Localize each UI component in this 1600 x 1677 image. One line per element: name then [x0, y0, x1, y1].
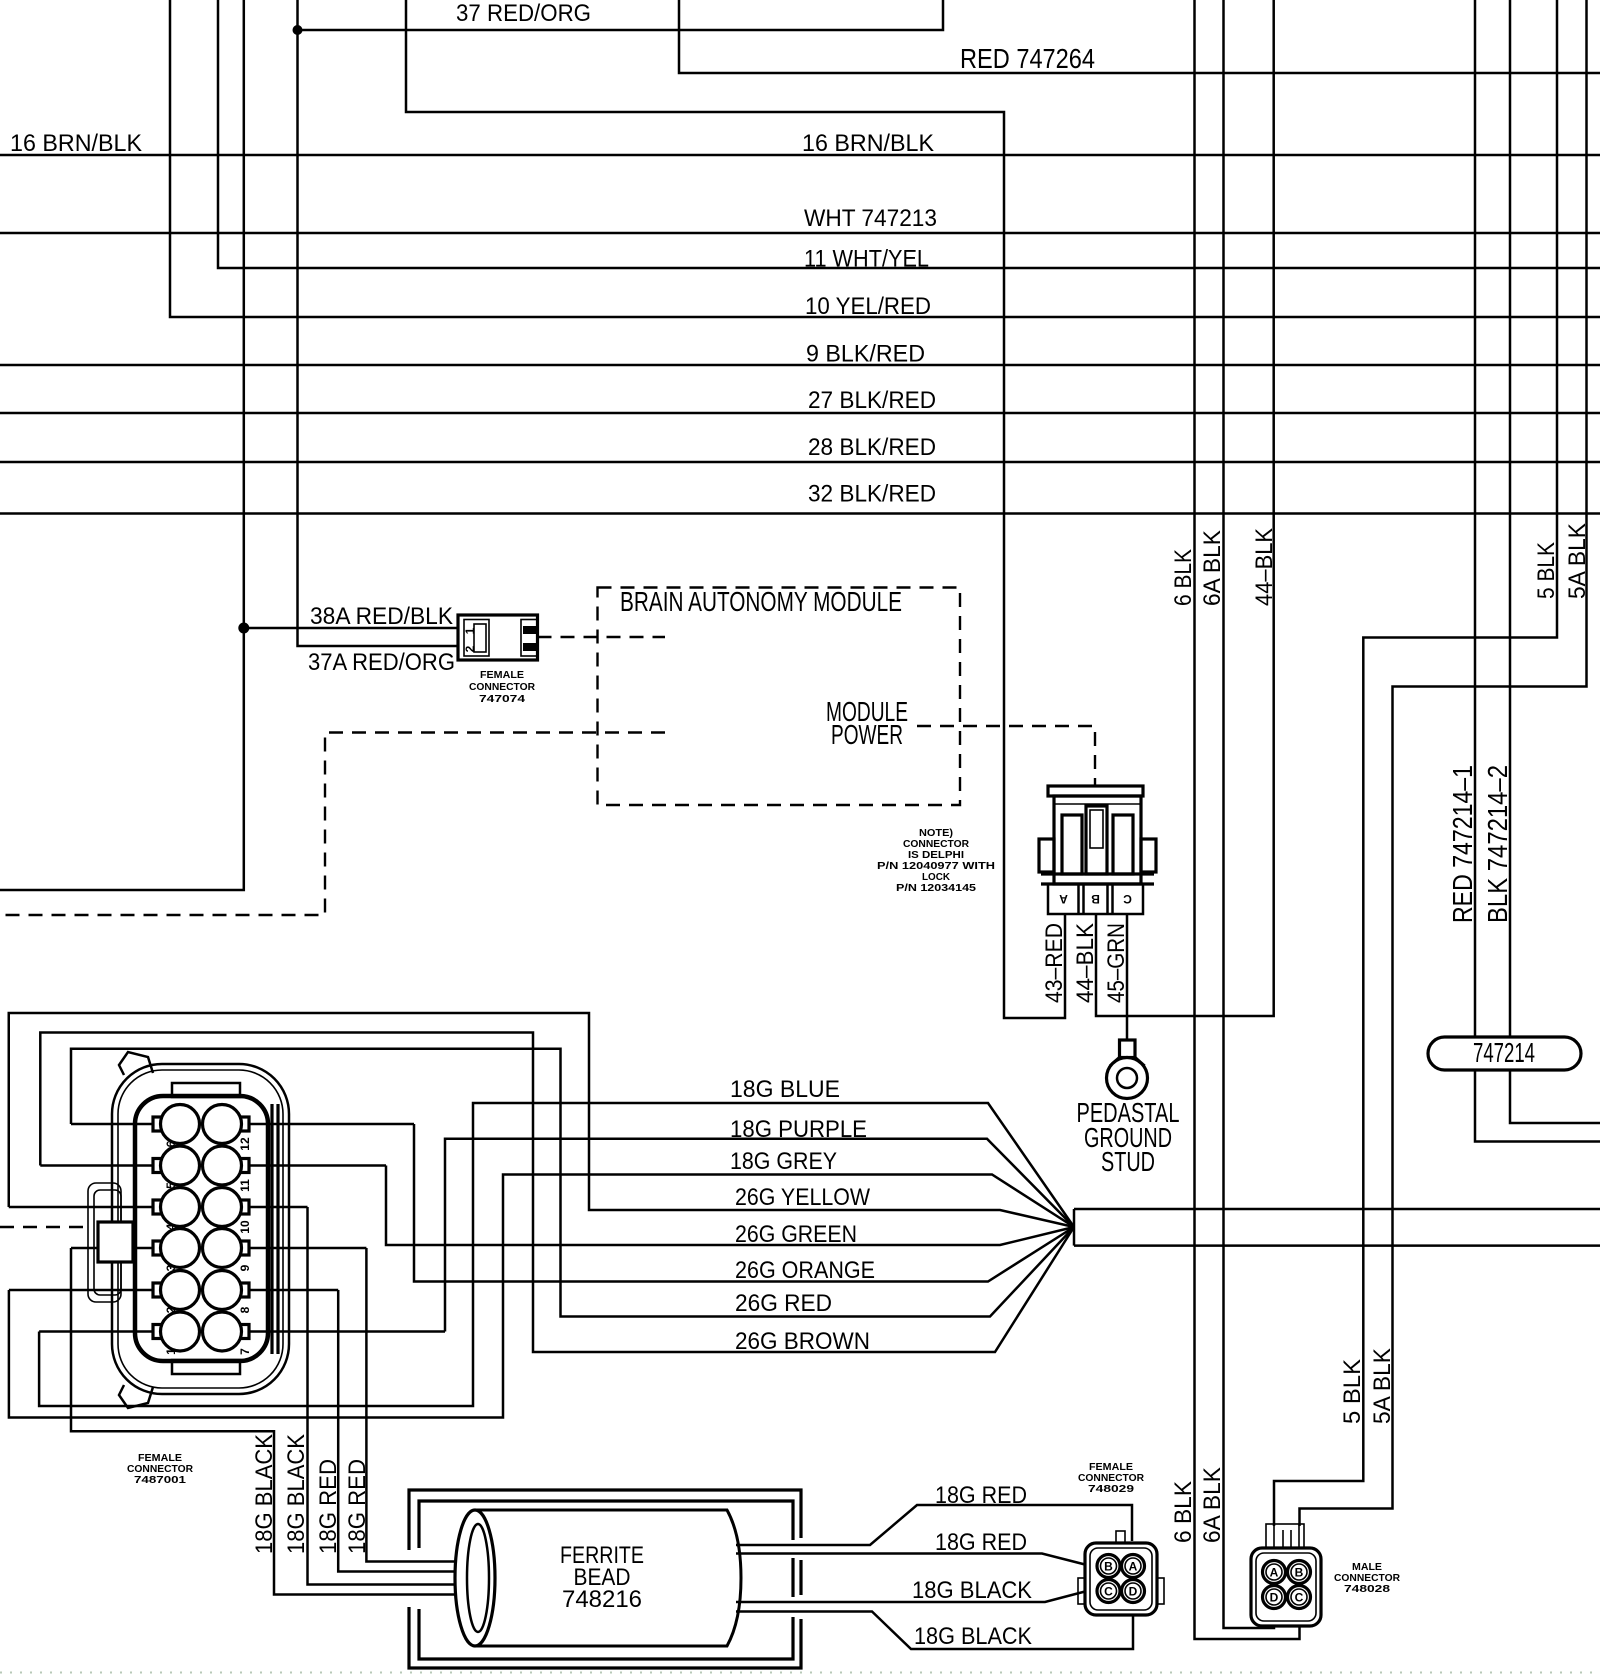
label MALE CONNECTOR 748028	[1334, 1561, 1400, 1595]
svg-text:18G RED: 18G RED	[935, 1529, 1027, 1556]
label FERRITE BEAD 748216	[560, 1542, 644, 1613]
label 26G BROWN	[735, 1328, 870, 1355]
svg-text:43–RED: 43–RED	[1041, 923, 1068, 1003]
wire row2 pins 5-11	[40, 1164, 386, 1167]
svg-text:26G RED: 26G RED	[735, 1290, 832, 1317]
svg-text:C: C	[1295, 1591, 1304, 1605]
label 43-RED rotated	[1041, 923, 1068, 1003]
svg-text:6: 6	[164, 1140, 178, 1147]
wire 38A RED/BLK with branch down to y=890	[0, 0, 458, 890]
svg-text:2: 2	[463, 645, 477, 652]
wire bead out 4 to 748029 pin D	[736, 1612, 1133, 1650]
svg-text:B: B	[1104, 1560, 1113, 1574]
label FEMALE CONNECTOR 748029	[1078, 1461, 1144, 1495]
label 11 WHT/YEL	[804, 246, 929, 273]
svg-text:5A BLK: 5A BLK	[1369, 1347, 1396, 1424]
svg-text:11: 11	[238, 1179, 252, 1192]
label 18G BLUE	[730, 1076, 840, 1103]
svg-text:9 BLK/RED: 9 BLK/RED	[806, 341, 925, 368]
svg-text:5 BLK: 5 BLK	[1533, 541, 1560, 599]
label 6 BLK bottom	[1170, 1480, 1197, 1543]
svg-text:18G BLACK: 18G BLACK	[914, 1623, 1033, 1650]
label 10 YEL/RED	[805, 293, 931, 320]
ferrite bead cylinder	[455, 1510, 741, 1646]
svg-text:D: D	[1129, 1585, 1138, 1599]
wire 26G GREEN route (row3 left)	[386, 1166, 1074, 1246]
label 18G BLACK out3	[912, 1577, 1033, 1604]
pin D 748028	[1263, 1586, 1286, 1609]
svg-text:18G BLUE: 18G BLUE	[730, 1076, 840, 1103]
label 18G RED rotated 1	[315, 1459, 342, 1554]
pin A delphi	[1059, 892, 1068, 906]
wire 26G YELLOW route (row2 right)	[9, 1013, 1074, 1227]
wire row6 pins 1-7	[39, 1330, 445, 1333]
label 5A BLK top	[1564, 522, 1591, 599]
svg-text:BLK 747214–2: BLK 747214–2	[1482, 765, 1513, 923]
label MODULE POWER	[826, 696, 908, 750]
label BLK 747214-2 rotated	[1482, 765, 1513, 923]
wire 6A BLK vertical to male connector pin D	[1224, 0, 1275, 1628]
pin numbers right 12 11 10 9 8 7	[238, 1137, 252, 1355]
svg-text:3: 3	[164, 1264, 178, 1271]
label 44-BLK rotated top	[1251, 527, 1278, 606]
wire dashed module power to delphi connector	[917, 726, 1095, 786]
wire 45-GRN to ground stud	[1126, 914, 1129, 1040]
wire bead feed 2 (row5 right) 18G RED	[338, 1290, 488, 1572]
label 26G GREEN	[735, 1221, 857, 1248]
wire 27 BLK/RED	[0, 412, 1600, 415]
label 18G RED out1	[935, 1482, 1027, 1509]
svg-text:6 BLK: 6 BLK	[1170, 1480, 1197, 1543]
svg-text:WHT 747213: WHT 747213	[804, 205, 937, 232]
wire 26G RED route (row1 left)	[71, 1049, 1074, 1317]
wire 6 BLK vertical to male connector pin C	[1195, 0, 1300, 1639]
connector U1 female 747074 body	[458, 615, 538, 660]
svg-text:28 BLK/RED: 28 BLK/RED	[808, 434, 936, 461]
pin A 748029	[1122, 1555, 1145, 1578]
svg-text:5: 5	[164, 1182, 178, 1189]
svg-text:37 RED/ORG: 37 RED/ORG	[456, 0, 591, 27]
wire dashed connector to module	[538, 636, 666, 638]
pins left column circles	[153, 1105, 200, 1352]
label 16 BRN/BLK left	[10, 130, 143, 157]
pin B delphi	[1091, 892, 1100, 906]
label 45-GRN rotated	[1103, 923, 1130, 1003]
label 18G RED rotated 2	[344, 1459, 371, 1554]
svg-text:18G BLACK: 18G BLACK	[251, 1433, 278, 1554]
svg-text:CONNECTOR: CONNECTOR	[469, 681, 535, 693]
label 16 BRN/BLK mid	[802, 130, 935, 157]
label FEMALE CONNECTOR 747074	[469, 669, 535, 705]
svg-text:18G RED: 18G RED	[344, 1459, 371, 1554]
wire trunk bus to right edge	[1074, 1209, 1600, 1246]
label PEDASTAL GROUND STUD	[1077, 1097, 1180, 1177]
svg-text:748028: 748028	[1344, 1583, 1390, 1595]
svg-text:A: A	[1129, 1560, 1138, 1574]
svg-text:747074: 747074	[479, 693, 525, 705]
svg-text:44–BLK: 44–BLK	[1072, 922, 1099, 1003]
pin C 748028	[1288, 1586, 1311, 1609]
wire 18G GREY route (row5 left)	[9, 1175, 1074, 1418]
wire 37A RED/ORG	[298, 0, 459, 646]
connector J4 male 748028 body	[1251, 1524, 1321, 1626]
svg-text:16 BRN/BLK: 16 BRN/BLK	[10, 130, 143, 157]
svg-text:27 BLK/RED: 27 BLK/RED	[808, 387, 936, 414]
label 9 BLK/RED	[806, 341, 925, 368]
label NOTE CONNECTOR IS DELPHI	[877, 827, 995, 894]
ground stud ring terminal	[1107, 1040, 1148, 1099]
svg-text:6A BLK: 6A BLK	[1199, 1466, 1226, 1543]
label 18G GREY	[730, 1148, 837, 1175]
svg-text:18G RED: 18G RED	[315, 1459, 342, 1554]
svg-text:6A BLK: 6A BLK	[1199, 529, 1226, 606]
svg-text:26G BROWN: 26G BROWN	[735, 1328, 870, 1355]
wire bead feed 1 (row4 right) 18G RED	[366, 1248, 488, 1562]
wire bead out 3 to 748029 pin C	[736, 1592, 1085, 1603]
pin C 748029	[1097, 1580, 1120, 1603]
svg-text:B: B	[1091, 892, 1100, 906]
svg-text:2: 2	[164, 1306, 178, 1313]
label 6 BLK top	[1170, 548, 1197, 606]
svg-text:10 YEL/RED: 10 YEL/RED	[805, 293, 931, 320]
svg-text:RED 747264: RED 747264	[960, 43, 1095, 74]
svg-text:A: A	[1059, 892, 1068, 906]
wire bead feed 4 (row4 left) 18G BLACK	[71, 1248, 488, 1595]
wire 11 WHT/YEL	[218, 0, 1600, 268]
wire red module power feed (y=112 to 43-RED)	[406, 0, 1065, 1018]
svg-text:P/N 12034145: P/N 12034145	[896, 882, 976, 894]
svg-text:1: 1	[463, 627, 477, 634]
pin B 748028	[1288, 1561, 1311, 1584]
svg-text:1: 1	[164, 1348, 178, 1355]
svg-text:747214: 747214	[1473, 1037, 1535, 1068]
label 38A RED/BLK	[310, 603, 454, 630]
connector J3 female 748029 body	[1078, 1531, 1164, 1615]
svg-text:STUD: STUD	[1101, 1146, 1155, 1177]
svg-text:11 WHT/YEL: 11 WHT/YEL	[804, 246, 929, 273]
label 32 BLK/RED	[808, 481, 936, 508]
svg-text:748216: 748216	[562, 1586, 642, 1613]
wire row4 pins 3-9	[71, 1247, 366, 1250]
label 28 BLK/RED	[808, 434, 936, 461]
wire bead out 1 to 748029 pin A	[736, 1505, 1132, 1545]
svg-text:16 BRN/BLK: 16 BRN/BLK	[802, 130, 935, 157]
bottom dotted margin line	[0, 1672, 1600, 1674]
pin B 748029	[1097, 1555, 1120, 1578]
label 18G BLACK out4	[914, 1623, 1033, 1650]
label 18G BLACK rotated 2	[283, 1433, 310, 1554]
svg-text:18G BLACK: 18G BLACK	[283, 1433, 310, 1554]
svg-text:D: D	[1270, 1591, 1279, 1605]
connector J1 12-pin body 7487001	[88, 1052, 289, 1408]
svg-text:12: 12	[238, 1137, 252, 1151]
callout 747214 stadium	[1428, 1037, 1581, 1070]
svg-text:18G PURPLE: 18G PURPLE	[730, 1116, 867, 1143]
svg-text:5 BLK: 5 BLK	[1339, 1358, 1366, 1424]
label 5 BLK top	[1533, 541, 1560, 599]
wire BLK 747214-2	[1510, 0, 1600, 1123]
connector J2 delphi body	[1039, 786, 1156, 914]
svg-text:RED 747214–1: RED 747214–1	[1447, 765, 1478, 923]
label WHT 747213	[804, 205, 937, 232]
svg-text:32 BLK/RED: 32 BLK/RED	[808, 481, 936, 508]
label 26G YELLOW	[735, 1184, 871, 1211]
svg-text:18G BLACK: 18G BLACK	[912, 1577, 1033, 1604]
svg-text:9: 9	[238, 1264, 252, 1271]
wire row1 pins 6-12	[71, 1123, 414, 1126]
wire bead feed 3 (row3 right) 18G BLACK	[308, 1207, 489, 1585]
wire bead out 2 to 748029 pin B	[736, 1554, 1085, 1565]
pin A 748028	[1263, 1561, 1286, 1584]
label 18G RED out2	[935, 1529, 1027, 1556]
pin C delphi	[1123, 892, 1132, 906]
node junction dot at 37 wire	[293, 25, 303, 35]
label 5 BLK mid	[1339, 1358, 1366, 1424]
svg-text:26G ORANGE: 26G ORANGE	[735, 1257, 875, 1284]
wire 5A BLK route to male connector pin B	[1300, 0, 1587, 1526]
svg-text:5A BLK: 5A BLK	[1564, 522, 1591, 599]
label RED 747214-1 rotated	[1447, 765, 1478, 923]
wire 18G PURPLE route (row6 right)	[445, 1139, 1074, 1332]
label RED 747264	[960, 43, 1095, 74]
node junction dot 38A	[238, 623, 249, 634]
svg-text:POWER: POWER	[831, 719, 903, 750]
svg-text:18G GREY: 18G GREY	[730, 1148, 837, 1175]
label 5A BLK mid	[1369, 1347, 1396, 1424]
svg-text:44–BLK: 44–BLK	[1251, 527, 1278, 606]
svg-text:BRAIN AUTONOMY MODULE: BRAIN AUTONOMY MODULE	[620, 586, 902, 617]
module box BRAIN AUTONOMY MODULE (dashed)	[598, 588, 961, 806]
ferrite bead shield outer box	[409, 1490, 801, 1668]
label FEMALE CONNECTOR 7487001	[127, 1452, 193, 1486]
wire RED 747264	[679, 0, 1600, 73]
wire 37 RED/ORG top	[298, 0, 944, 30]
wire row3 pins 4-10	[9, 1206, 308, 1209]
svg-text:6 BLK: 6 BLK	[1170, 548, 1197, 606]
wire 32 BLK/RED	[0, 512, 1600, 515]
wire 44-BLK bus vertical	[1096, 0, 1274, 1016]
svg-text:26G YELLOW: 26G YELLOW	[735, 1184, 871, 1211]
wire WHT 747213	[0, 232, 1600, 235]
svg-text:7487001: 7487001	[134, 1474, 186, 1486]
svg-text:B: B	[1295, 1566, 1304, 1580]
label 37 RED/ORG	[456, 0, 591, 27]
wire 16 BRN/BLK	[0, 154, 1600, 157]
pin D 748029	[1122, 1580, 1145, 1603]
wire 28 BLK/RED	[0, 461, 1600, 464]
label 6A BLK bottom	[1199, 1466, 1226, 1543]
wire 18G BLUE route (row6 left)	[39, 1103, 1074, 1406]
svg-text:C: C	[1123, 892, 1132, 906]
svg-text:C: C	[1104, 1585, 1113, 1599]
label 26G RED	[735, 1290, 832, 1317]
wire 5 BLK route to male connector pin A	[1274, 0, 1557, 1526]
label 37A RED/ORG	[308, 649, 455, 676]
label 18G BLACK rotated 1	[251, 1433, 278, 1554]
svg-text:748029: 748029	[1088, 1483, 1134, 1495]
svg-text:18G RED: 18G RED	[935, 1482, 1027, 1509]
svg-text:A: A	[1270, 1566, 1279, 1580]
pin numbers left 6 5 4 3 2 1	[164, 1140, 178, 1355]
label 44-BLK rotated	[1072, 922, 1099, 1003]
wire 26G ORANGE route (row1 right)	[414, 1124, 1074, 1282]
label 26G ORANGE	[735, 1257, 875, 1284]
svg-text:37A RED/ORG: 37A RED/ORG	[308, 649, 455, 676]
svg-text:8: 8	[238, 1306, 252, 1313]
wire 26G BROWN route (row2 left)	[40, 1033, 1074, 1353]
svg-text:26G GREEN: 26G GREEN	[735, 1221, 857, 1248]
wire row5 pins 2-8	[9, 1289, 338, 1292]
label 6A BLK top	[1199, 529, 1226, 606]
label 27 BLK/RED	[808, 387, 936, 414]
svg-text:38A RED/BLK: 38A RED/BLK	[310, 603, 454, 630]
wire dashed latch stub	[0, 1226, 86, 1228]
label 18G PURPLE	[730, 1116, 867, 1143]
label BRAIN AUTONOMY MODULE	[620, 586, 902, 617]
wire dashed module left to page edge	[0, 733, 665, 916]
svg-text:FEMALE: FEMALE	[480, 669, 524, 681]
svg-text:4: 4	[164, 1223, 178, 1230]
svg-text:10: 10	[238, 1220, 252, 1234]
ferrite bead shield inner box	[419, 1501, 793, 1659]
wire 9 BLK/RED	[0, 364, 1600, 367]
svg-text:7: 7	[238, 1348, 252, 1355]
pins right column circles	[203, 1105, 250, 1352]
wire RED 747214-1	[1475, 0, 1600, 1142]
wire 10 YEL/RED	[170, 0, 1600, 317]
